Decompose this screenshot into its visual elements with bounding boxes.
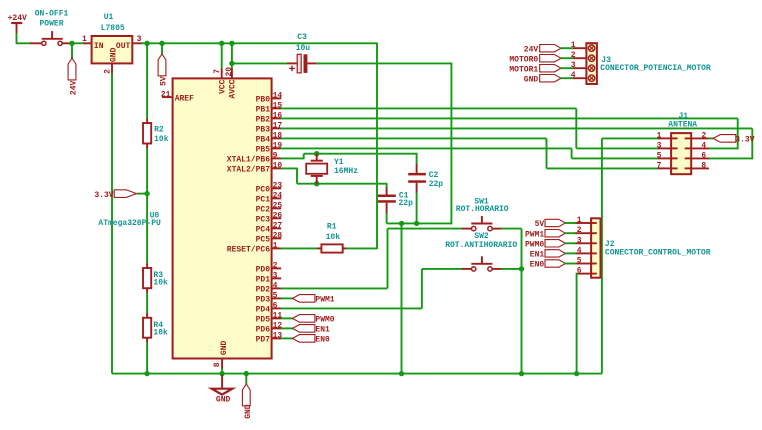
wire R1 to 5V riser [347, 247, 378, 249]
svg-text:3.3V: 3.3V [94, 191, 113, 200]
wire J2.6 to rail [576, 273, 578, 374]
wire 5V to R2 [146, 43, 148, 119]
pin J1.1 [657, 131, 672, 140]
wire GND mid [387, 222, 453, 224]
label GND name bottom [220, 340, 229, 355]
wire SW1 out [501, 229, 522, 374]
wire C2 bottom [416, 193, 418, 224]
svg-text:AREF: AREF [175, 94, 194, 103]
svg-text:5: 5 [577, 257, 582, 266]
svg-text:IN: IN [94, 42, 104, 51]
svg-text:10u: 10u [296, 44, 311, 53]
net flag EN0 J2 [530, 260, 566, 270]
pin J2.3 [576, 236, 592, 245]
svg-text:3: 3 [571, 61, 576, 70]
svg-text:5: 5 [657, 151, 662, 160]
net flag 24V [68, 58, 78, 95]
svg-text:ATmega328P-PU: ATmega328P-PU [98, 219, 161, 228]
switch SW1 ROT.HORARIO [456, 197, 509, 231]
junction AVCC riser [229, 41, 234, 46]
wire SW2 out [501, 268, 522, 270]
net flag MOTOR0 J3 [509, 55, 561, 65]
junction AVCC C3 node [229, 61, 234, 66]
wire C1 top riser [386, 184, 388, 188]
svg-text:PB5: PB5 [256, 146, 271, 155]
pin J2.4 [576, 246, 592, 255]
connector J1 ANTENA [668, 112, 697, 174]
svg-text:PC4: PC4 [256, 226, 271, 235]
regulator U1 L7805 [92, 13, 133, 64]
wire PB5 to J1.5 [281, 148, 659, 158]
svg-text:EN1: EN1 [315, 325, 330, 334]
wire PD4 to SW2 [281, 269, 463, 309]
pin J3.1 [571, 41, 587, 50]
svg-text:10k: 10k [153, 279, 168, 288]
svg-text:4: 4 [273, 282, 278, 291]
net flag 3.3V right [713, 135, 754, 145]
wire PD6 flag stub [281, 327, 293, 329]
wire +24V stem [16, 33, 31, 43]
wire 5V main [142, 42, 378, 44]
wire J2 pin5 [565, 263, 576, 265]
wire U1 GND down [111, 73, 113, 374]
junction 3.3V tap [144, 191, 149, 196]
wire GND pin to rail [221, 368, 223, 373]
capacitor C2 22p [408, 164, 443, 193]
svg-text:R2: R2 [154, 126, 164, 135]
wire 5V riser [376, 43, 378, 250]
svg-text:XTAL1/PB6: XTAL1/PB6 [227, 156, 270, 165]
svg-text:1: 1 [657, 131, 662, 140]
wire VCC riser [221, 43, 223, 69]
svg-text:9: 9 [273, 152, 278, 161]
wire PD2 to SW1 [281, 229, 463, 289]
pin U0 VCC 7 [213, 68, 222, 78]
svg-text:10k: 10k [154, 135, 169, 144]
svg-text:14: 14 [273, 92, 283, 101]
junction rail R4 [144, 371, 149, 376]
wire J1.2 flag stub [709, 137, 714, 139]
svg-text:PC3: PC3 [256, 216, 271, 225]
wire PB4 to J1.7 [281, 138, 659, 168]
resistor R3 10k [143, 264, 168, 294]
svg-text:L7805: L7805 [101, 24, 125, 33]
net flag PWM1 J2 [525, 230, 565, 240]
pin U1.3 OUT [132, 35, 142, 44]
wire AVCC riser [231, 43, 233, 69]
wire PD5 flag stub [281, 317, 293, 319]
svg-text:PWM0: PWM0 [525, 241, 544, 250]
svg-text:ROT.ANTIHORARIO: ROT.ANTIHORARIO [445, 241, 517, 250]
ground symbol GND [212, 375, 233, 404]
resistor R4 10k [143, 313, 168, 342]
svg-text:3: 3 [273, 272, 278, 281]
svg-text:PB1: PB1 [256, 106, 271, 115]
pin J2.1 [576, 216, 592, 225]
svg-text:RESET/PC6: RESET/PC6 [227, 246, 270, 255]
svg-text:ANTENA: ANTENA [668, 121, 697, 130]
pin J2.5 [576, 257, 592, 266]
svg-text:POWER: POWER [39, 19, 63, 28]
svg-text:3: 3 [577, 236, 582, 245]
svg-text:SW2: SW2 [474, 232, 489, 241]
pin J1.3 [657, 141, 672, 150]
svg-text:23: 23 [273, 182, 283, 191]
svg-text:PC2: PC2 [256, 206, 271, 215]
svg-text:PD3: PD3 [256, 296, 271, 305]
svg-text:PD0: PD0 [256, 266, 271, 275]
pin U0 AVCC 20 [225, 67, 234, 79]
svg-text:6: 6 [273, 302, 278, 311]
svg-text:Y1: Y1 [334, 158, 344, 167]
ic U0 ATmega328P-PU [98, 78, 271, 358]
pin J3.4 [571, 71, 587, 80]
net flag PWM0 J2 [525, 240, 565, 250]
wire PB1 to J1.3 [281, 108, 659, 148]
svg-text:C3: C3 [297, 33, 307, 42]
svg-text:5V: 5V [159, 76, 168, 86]
svg-text:MOTOR1: MOTOR1 [509, 66, 538, 75]
svg-text:PD2: PD2 [256, 286, 271, 295]
svg-text:PB3: PB3 [256, 126, 271, 135]
wire 3.3V flag stub [137, 193, 147, 195]
wire XTAL2 [281, 168, 388, 184]
wire XTAL1 [281, 154, 418, 160]
svg-text:R1: R1 [327, 222, 337, 231]
svg-text:2: 2 [571, 51, 576, 60]
pins U0 PC0-PC6 [227, 182, 283, 255]
wire J3 pin3 [561, 67, 574, 69]
pin J2.6 [577, 267, 592, 276]
junction rail GND flag [244, 371, 249, 376]
svg-text:XTAL2/PB7: XTAL2/PB7 [227, 166, 270, 175]
junction crystal bottom [314, 181, 319, 186]
capacitor C3 10u [287, 33, 317, 73]
wire 5V flag stub [161, 43, 163, 54]
net flag EN0 [292, 335, 330, 345]
svg-text:26: 26 [273, 212, 283, 221]
svg-text:PC1: PC1 [256, 196, 271, 205]
svg-text:3: 3 [137, 35, 142, 44]
wire J3 pin2 [561, 57, 574, 59]
junction rail J2.6 [574, 371, 579, 376]
wire GND riser right [450, 63, 452, 225]
wire J3 pin1 [561, 47, 574, 49]
svg-text:GND: GND [244, 404, 253, 419]
svg-text:PD4: PD4 [256, 306, 271, 315]
junction 5V flag [159, 41, 164, 46]
pins U0 PB0-PB7 [227, 92, 283, 175]
svg-text:3.3V: 3.3V [735, 135, 754, 144]
svg-text:28: 28 [273, 232, 283, 241]
svg-text:VCC: VCC [218, 79, 227, 94]
net flag 3.3V left [94, 190, 136, 200]
svg-text:AVCC: AVCC [229, 79, 238, 98]
pin J3.2 [571, 51, 587, 60]
svg-text:EN0: EN0 [315, 335, 330, 344]
svg-text:EN1: EN1 [530, 251, 545, 260]
pin J1.4 [691, 141, 709, 150]
svg-text:PD6: PD6 [256, 326, 271, 335]
svg-text:1: 1 [82, 35, 87, 44]
junction rail C-GND [399, 371, 404, 376]
power +24V supply symbol P1 [8, 14, 27, 34]
wire J2 pin2 [565, 232, 576, 234]
wire RESET to R1 [281, 247, 318, 249]
svg-text:GND: GND [110, 47, 119, 62]
svg-text:22p: 22p [429, 180, 444, 189]
pin U1.2 GND [104, 63, 113, 73]
connector J2 CONECTOR_CONTROL_MOTOR [591, 218, 711, 277]
svg-text:ON-OFF1: ON-OFF1 [35, 10, 69, 19]
svg-text:24: 24 [273, 192, 283, 201]
net flag GND J3 [524, 75, 561, 85]
resistor R2 10k [143, 119, 169, 149]
resistor R1 10k [317, 222, 347, 252]
svg-text:PC0: PC0 [256, 186, 271, 195]
svg-text:PC5: PC5 [256, 236, 271, 245]
junction rail SW [519, 371, 524, 376]
svg-text:10k: 10k [326, 233, 341, 242]
pin J2.2 [576, 226, 592, 235]
svg-text:GND: GND [220, 340, 229, 355]
wire J2 pin1 [565, 222, 576, 224]
wire GND flag stub [245, 374, 247, 385]
net flag MOTOR1 J3 [509, 65, 561, 75]
wire PD3 flag stub [281, 297, 293, 299]
pin U0.21 AREF [161, 90, 194, 103]
svg-text:U1: U1 [104, 13, 114, 22]
pin J1.8 [691, 161, 709, 170]
wire J2 pin4 [565, 252, 576, 254]
net flag EN1 [292, 325, 330, 335]
svg-text:4: 4 [571, 71, 576, 80]
wire R4 to rail [146, 342, 148, 374]
svg-text:25: 25 [273, 202, 283, 211]
svg-text:C2: C2 [429, 171, 439, 180]
crystal Y1 16MHz [306, 154, 358, 184]
label VCC AVCC names [218, 79, 237, 98]
net flag 24V J3 [524, 45, 561, 55]
pin J1.7 [657, 161, 672, 170]
svg-text:24V: 24V [69, 80, 78, 95]
svg-text:PD7: PD7 [256, 336, 271, 345]
switch S1 ON-OFF1 POWER [30, 10, 70, 46]
svg-text:8: 8 [213, 362, 222, 367]
connector J3 CONECTOR_POTENCIA_MOTOR [586, 43, 711, 84]
svg-text:8: 8 [701, 161, 706, 170]
net flag 5V [158, 54, 168, 86]
pin U0.8 GND [213, 359, 222, 369]
wire J1.1 GND riser [602, 138, 658, 373]
svg-text:4: 4 [577, 246, 582, 255]
svg-text:GND: GND [524, 76, 539, 85]
svg-text:2: 2 [577, 226, 582, 235]
wire 5V to C3 [232, 62, 287, 64]
pin J1.5 [657, 151, 672, 160]
svg-text:5V: 5V [535, 220, 545, 229]
net flag PWM0 [292, 315, 334, 325]
junction R2 top [144, 41, 149, 46]
pin U1.1 IN [82, 35, 92, 44]
junction SW out [519, 266, 524, 271]
pin J3.3 [571, 61, 587, 70]
svg-text:PWM1: PWM1 [525, 230, 544, 239]
wire GND rail [112, 373, 602, 375]
net flag GND [242, 384, 253, 419]
switch SW2 ROT.ANTIHORARIO [445, 232, 517, 271]
svg-text:CONECTOR_CONTROL_MOTOR: CONECTOR_CONTROL_MOTOR [605, 249, 711, 258]
svg-text:16MHz: 16MHz [334, 167, 358, 176]
svg-text:4: 4 [701, 141, 706, 150]
junction 24V node [69, 41, 74, 46]
svg-text:22p: 22p [399, 199, 414, 208]
wire R3 to R4 [146, 293, 148, 314]
svg-text:6: 6 [701, 151, 706, 160]
svg-text:PWM0: PWM0 [315, 315, 334, 324]
svg-text:3: 3 [657, 141, 662, 150]
svg-text:PWM1: PWM1 [315, 295, 334, 304]
junction GND mid 1 [399, 221, 404, 226]
pin J1.2 [691, 131, 709, 140]
svg-text:PB2: PB2 [256, 116, 271, 125]
net flag EN1 J2 [530, 250, 566, 260]
svg-text:21: 21 [161, 90, 171, 99]
svg-text:27: 27 [273, 222, 283, 231]
svg-text:1: 1 [577, 216, 582, 225]
pins U0 PD0-PD7 [256, 262, 283, 345]
svg-text:7: 7 [657, 161, 662, 170]
svg-text:PB4: PB4 [256, 136, 271, 145]
svg-text:CONECTOR_POTENCIA_MOTOR: CONECTOR_POTENCIA_MOTOR [600, 64, 711, 73]
junction crystal top [314, 151, 319, 156]
junction rail U0 GND [219, 371, 224, 376]
svg-text:5: 5 [273, 292, 278, 301]
net flag PWM1 [292, 295, 334, 305]
wire R2 to R3 [146, 148, 148, 264]
svg-text:2: 2 [701, 131, 706, 140]
svg-text:PB0: PB0 [256, 96, 271, 105]
wire PB3 to J1.6 [281, 128, 753, 159]
wire 24V flag stub [71, 43, 73, 58]
wire C1 bottom [386, 213, 388, 223]
svg-text:24V: 24V [524, 46, 539, 55]
svg-text:PD1: PD1 [256, 276, 271, 285]
junction VCC [219, 41, 224, 46]
wire C2 top riser [416, 153, 418, 164]
svg-text:7: 7 [213, 69, 222, 74]
wire PD7 flag stub [281, 337, 293, 339]
svg-text:EN0: EN0 [530, 261, 545, 270]
svg-text:10k: 10k [153, 329, 168, 338]
net flag 5V J2 [535, 219, 566, 229]
svg-text:ROT.HORARIO: ROT.HORARIO [456, 205, 509, 214]
junction GND mid 2 [414, 221, 419, 226]
svg-text:1: 1 [273, 242, 278, 251]
capacitor C1 22p [378, 187, 413, 213]
wire J2 pin3 [565, 242, 576, 244]
wire PB2 to J1.4 [281, 118, 739, 149]
svg-text:2: 2 [273, 262, 278, 271]
wire switch to U1 [69, 42, 83, 44]
pin J1.6 [691, 151, 709, 160]
wire J3 pin4 [561, 77, 574, 79]
svg-text:PD5: PD5 [256, 316, 271, 325]
svg-text:GND: GND [216, 395, 231, 404]
wire GND mid drop [401, 223, 403, 373]
svg-text:MOTOR0: MOTOR0 [509, 56, 538, 65]
svg-text:+24V: +24V [8, 14, 27, 23]
svg-text:20: 20 [225, 67, 234, 77]
wire C3 to GND riser [316, 62, 451, 64]
svg-text:1: 1 [571, 41, 576, 50]
